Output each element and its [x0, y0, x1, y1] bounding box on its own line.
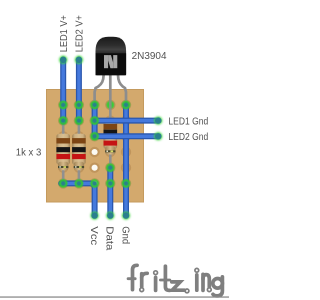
- svg-text:LED1 Gnd: LED1 Gnd: [168, 116, 208, 127]
- svg-text:Vcc: Vcc: [88, 226, 99, 245]
- connection rings row6: [61, 181, 66, 186]
- wire W2: LED2 V+ into col2: [76, 60, 82, 122]
- wire W8: col5 transistor leg down to Gnd pin: [123, 105, 129, 216]
- transistor Q1 2N3904 body (TO-92): [96, 37, 127, 75]
- resistor R2 1k: [72, 121, 86, 184]
- wire W7: col4 row5 down to Data pin: [107, 168, 113, 216]
- wire W1: LED1 V+ into col1: [60, 60, 66, 122]
- svg-text:Data: Data: [104, 226, 115, 251]
- wire end cap Gnd pin: [122, 212, 130, 220]
- svg-text:2N3904: 2N3904: [132, 51, 167, 62]
- wire end cap W5 right (LED2 Gnd): [154, 132, 162, 140]
- wire end cap W2 top: [75, 56, 83, 64]
- wire W4: LED1 Gnd row2 horizontal: [95, 118, 159, 124]
- svg-text:Gnd: Gnd: [119, 226, 130, 244]
- resistor R1 1k: [56, 121, 70, 184]
- footer separator line: [0, 296, 229, 297]
- svg-text:LED2 V+: LED2 V+: [75, 15, 86, 52]
- wire W6: ground bus row6 with elbow down to Vcc pin: [61, 183, 94, 215]
- wire end cap W1 top: [59, 56, 67, 64]
- connection ring row5 col4: [108, 165, 113, 170]
- wire end cap Data pin: [106, 212, 114, 220]
- wire W3: col3 row1 to row3: [92, 105, 98, 137]
- transistor Q1 legs: [95, 73, 126, 105]
- perfboard holes grid: [58, 100, 68, 110]
- connection rings row1: [61, 102, 66, 107]
- wire end cap Vcc pin: [91, 212, 99, 220]
- wire W5: LED2 Gnd row3 horizontal: [95, 133, 159, 139]
- fritzing watermark logo: [128, 265, 222, 296]
- svg-text:LED1 V+: LED1 V+: [59, 15, 70, 52]
- connection rings row2: [61, 118, 66, 123]
- perfboard PCB: [47, 90, 144, 203]
- svg-text:1k x 3: 1k x 3: [16, 147, 42, 158]
- connection ring row3 col3: [92, 134, 97, 139]
- svg-text:LED2 Gnd: LED2 Gnd: [168, 132, 208, 143]
- resistor R3 1k: [104, 105, 118, 168]
- wire end cap W4 right (LED1 Gnd): [154, 117, 162, 125]
